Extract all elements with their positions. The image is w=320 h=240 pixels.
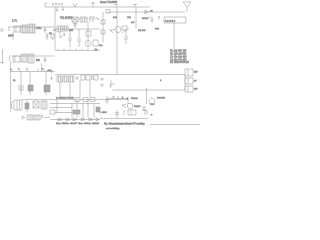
svg-text:2x 1N5408 BY299: 2x 1N5408 BY299 — [56, 98, 75, 100]
wire right vertical — [184, 75, 186, 91]
diode row d4 — [81, 118, 84, 121]
transformer T4 windings — [21, 54, 27, 62]
svg-text:C1 47n 22u 63V: C1 47n 22u 63V — [170, 57, 187, 59]
transformer T1 windings — [28, 24, 35, 33]
wire x88 vertical — [87, 22, 89, 47]
connector left edge — [0, 29, 3, 31]
thyristor arrow — [60, 33, 65, 38]
svg-text:1n5: 1n5 — [69, 29, 74, 32]
svg-text:2SC588: 2SC588 — [157, 98, 166, 100]
tick label — [114, 5, 118, 8]
tick — [158, 16, 160, 20]
wire segment — [55, 112, 72, 114]
capacitor C12 bar — [92, 75, 94, 80]
wire drops to bottom x90 — [89, 80, 91, 97]
tick marks on bus — [58, 49, 94, 51]
transistor Q2 — [115, 27, 121, 33]
svg-text:TO3: TO3 — [150, 104, 155, 106]
wire drop x57 — [56, 7, 59, 12]
wire x46 drop — [45, 72, 47, 96]
resistor on vertical — [51, 33, 54, 40]
resistor Rb2 on line — [83, 98, 88, 102]
svg-text:BC547: BC547 — [142, 18, 149, 20]
transformer T2 windings — [57, 26, 62, 32]
wire x146 vertical — [146, 88, 148, 104]
IC boxes right stack 2 — [185, 78, 193, 84]
svg-text:1n 22u 4u7 1n 10u 2k2: 1n 22u 4u7 1n 10u 2k2 — [56, 123, 101, 125]
capacitor C22 — [124, 30, 128, 44]
transformer T3 windings — [63, 26, 68, 31]
ticks above — [12, 69, 44, 72]
wire lower right bus — [112, 89, 185, 91]
arrow — [122, 104, 126, 108]
inductor L2 box — [80, 17, 87, 22]
svg-text:D1 1N4148 BY127: D1 1N4148 BY127 — [170, 62, 190, 64]
wire bottom line mid — [100, 118, 148, 120]
capacitor C42 — [115, 113, 119, 115]
svg-text:BY448: BY448 — [131, 98, 138, 100]
connector J2 — [106, 10, 110, 14]
bracket left mid — [10, 55, 11, 62]
wire left stub — [8, 27, 10, 31]
svg-text:33V: 33V — [194, 89, 198, 91]
transformer T8 windings — [69, 76, 74, 82]
relay K2 box — [13, 56, 20, 62]
resistor R6 box — [93, 40, 98, 46]
svg-text:c: c — [26, 69, 27, 71]
bottom diode row line — [50, 119, 100, 121]
wire bottom right rule — [150, 124, 200, 126]
diode row d2 — [66, 118, 69, 121]
svg-text:C21: C21 — [127, 17, 132, 19]
wire mid-left net — [12, 55, 55, 57]
wire x30 drop — [29, 72, 31, 96]
svg-text:5V: 5V — [194, 81, 197, 83]
relay K1 box — [14, 26, 20, 32]
IC boxes right stack 1 — [185, 69, 193, 76]
svg-text:+ 110V: + 110V — [100, 112, 107, 114]
svg-text:e: e — [160, 79, 162, 82]
diode D12 box — [86, 75, 90, 80]
svg-text:56k: 56k — [36, 59, 41, 62]
wire main mid bus — [55, 74, 185, 76]
wire x75 segment — [60, 18, 100, 20]
mark — [142, 107, 146, 111]
transistor Q1 — [85, 41, 91, 47]
capacitor C40 — [105, 96, 109, 104]
connector block left — [14, 100, 22, 110]
left edge marks — [50, 70, 53, 81]
svg-text:met toelichting: met toelichting — [106, 127, 120, 130]
IC U1 pin row box — [164, 17, 186, 23]
wire main left vertical — [54, 7, 56, 50]
wire drop x94 — [93, 104, 95, 119]
wire x41 drop from upper cluster — [41, 63, 43, 72]
bracket — [12, 101, 13, 109]
switch S2 — [58, 3, 60, 6]
diode row d3 — [73, 118, 76, 121]
diode D9 arrow — [144, 10, 149, 14]
wire left edge vertical — [0, 49, 4, 64]
diode D2 — [89, 17, 99, 22]
tick label — [133, 5, 137, 8]
capacitor C5 — [68, 29, 72, 47]
plug P1 — [73, 3, 77, 7]
wire x128 drop — [127, 99, 129, 105]
svg-text:2.7k: 2.7k — [12, 19, 18, 23]
bracket box — [124, 110, 136, 115]
wire x117 drop bottom — [116, 110, 118, 118]
resistor R20 dark — [28, 85, 33, 91]
svg-text:10k 1W: 10k 1W — [138, 30, 146, 32]
svg-text:12V: 12V — [194, 72, 198, 74]
wire drop x77 — [76, 100, 78, 118]
wire x117 vertical — [116, 7, 118, 75]
svg-text:4u7: 4u7 — [131, 22, 135, 24]
arrows into Q2 — [110, 29, 115, 33]
transformer T5 windings — [28, 54, 34, 63]
wire drops to bottom x70 — [69, 82, 71, 97]
resistor R15 — [122, 26, 127, 30]
resistor Rb1 on line — [75, 98, 80, 102]
node label top-left tick — [45, 2, 47, 4]
wire drop from relay — [12, 32, 14, 40]
svg-text:22n: 22n — [99, 45, 103, 47]
diode row d6 — [96, 118, 99, 121]
wire x27 drop — [26, 100, 28, 112]
capacitor bank dark — [41, 101, 47, 109]
svg-text:d: d — [42, 69, 43, 71]
wire — [44, 117, 50, 119]
fuse F1 — [52, 3, 54, 6]
dark box — [73, 110, 80, 114]
wire drop x88 — [87, 100, 89, 118]
wire x21 drop — [20, 72, 22, 96]
wire x136 vertical — [135, 7, 137, 28]
capacitor C6 — [77, 29, 81, 47]
capacitor C3 marks — [46, 33, 49, 40]
box b1 — [27, 115, 33, 120]
resistor R11 — [101, 30, 105, 34]
wire left band bus — [10, 71, 55, 73]
wire left net — [8, 26, 55, 28]
transistor Q3 — [127, 103, 133, 109]
capacitor C10 — [18, 86, 24, 90]
box — [50, 110, 55, 114]
svg-text:c: c — [151, 114, 153, 117]
wire mid join — [107, 98, 128, 100]
diode row d1 — [58, 118, 61, 121]
resistor R10 — [101, 20, 105, 24]
mark L — [111, 80, 115, 84]
resistor dark narrow — [25, 103, 29, 109]
svg-text:S2000: S2000 — [134, 106, 141, 108]
mark right — [143, 110, 147, 115]
tick — [109, 85, 112, 88]
dark box right — [96, 107, 100, 112]
resistor R21 dark — [44, 85, 50, 92]
junction dot — [127, 98, 129, 100]
capacitor C2 — [44, 27, 47, 33]
svg-text:Fig. Stroomschema kleuren-TV v: Fig. Stroomschema kleuren-TV voeding — [104, 123, 145, 126]
wire bottom bus2 — [50, 103, 100, 105]
arrow — [22, 116, 25, 119]
svg-text:470u: 470u — [36, 27, 42, 30]
svg-text:b: b — [18, 69, 20, 71]
wire diagonal — [122, 28, 129, 33]
box b2 — [34, 115, 40, 120]
transformer T7 windings — [63, 76, 68, 82]
svg-text:8 8 8 8 8: 8 8 8 8 8 — [165, 19, 176, 23]
wire drops to bottom x80 — [79, 80, 81, 97]
wire x103 vertical — [102, 12, 104, 42]
capacitor C30 top right — [150, 17, 154, 23]
arrow mark — [53, 29, 56, 31]
tick — [41, 115, 43, 119]
svg-text:R2 12R 1k8 5W: R2 12R 1k8 5W — [170, 54, 187, 56]
diode D11 box — [81, 75, 85, 80]
bridge rectifier box — [33, 101, 39, 108]
wire drop x63 — [62, 7, 64, 11]
mark x100 — [100, 78, 104, 88]
wire drop x83 — [82, 104, 84, 119]
switch S1 — [55, 3, 57, 6]
wire lower bus — [55, 50, 100, 52]
wire mid bus — [55, 28, 100, 30]
transistor Q4 — [149, 98, 155, 104]
crystal X1 — [72, 17, 78, 22]
wire drop x72 — [71, 104, 73, 119]
svg-text:Naam TDA2595: Naam TDA2595 — [100, 1, 118, 4]
wire drop x57 — [56, 100, 58, 113]
wire second bus — [108, 11, 185, 13]
wire x11 vertical — [10, 62, 12, 112]
wire bottom section top line — [22, 99, 128, 101]
antenna / earth symbol — [183, 2, 191, 12]
transformer T1a windings — [21, 25, 27, 33]
capacitor C8 — [44, 57, 47, 63]
wire bottom bus3 — [50, 107, 72, 109]
diode row d5 — [89, 118, 92, 121]
svg-text:1k: 1k — [13, 80, 16, 82]
svg-text:230V: 230V — [8, 35, 14, 38]
resistor Rb3 on line — [90, 98, 95, 102]
plus mark — [76, 76, 79, 80]
IC boxes right stack 3 — [185, 86, 193, 92]
resistor R24 box — [94, 75, 98, 80]
wire x174 vertical — [173, 23, 175, 49]
svg-text:P30: P30 — [155, 29, 160, 31]
transformer T6 windings — [57, 76, 62, 82]
diode D3 drop — [73, 22, 77, 28]
wire top bus — [45, 3, 150, 7]
switch S3 — [61, 3, 63, 6]
svg-text:R1 118 4R7 2W: R1 118 4R7 2W — [170, 51, 187, 53]
resistor R5 — [86, 31, 91, 36]
arrow up symbol — [92, 2, 95, 7]
component row marks mid-bottom — [112, 96, 124, 101]
wire drops to bottom x60 — [59, 82, 61, 97]
